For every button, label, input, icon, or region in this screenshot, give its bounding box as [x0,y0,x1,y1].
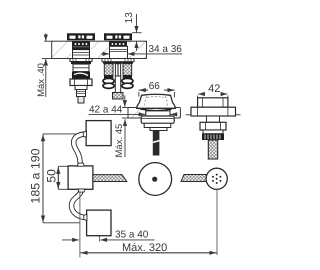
handle [104,33,132,40]
wire: right hole white [109,42,129,58]
svg-text:35 a 40: 35 a 40 [115,230,149,241]
supply tail [78,97,84,104]
aerator ring [203,130,223,134]
dim Max40 arrows [42,33,52,97]
handle [67,33,95,40]
top valve square (plan) [86,121,111,146]
svg-text:50: 50 [45,169,59,183]
body in counter [110,46,128,58]
pipe fitting center square top [77,163,84,166]
axis line bottom valve [98,236,100,242]
svg-text:Máx .40: Máx .40 [36,63,47,97]
aerator flange [191,107,236,116]
outlet arm hatched (side) [181,175,207,182]
bottom valve square (plan) [87,210,111,236]
spout washer [144,123,171,127]
nut bands [104,75,113,78]
spout center dot [152,177,157,182]
counter slab (top section view) [52,41,147,58]
dim 185a190 [43,134,86,223]
right valve body section [102,33,134,99]
dim 50 [58,166,68,189]
outlet circle with holes [206,168,227,189]
dim 13 lines [132,14,142,51]
pipe fitting at top valve [83,131,86,137]
center tube upper [115,64,120,76]
svg-text:42 a 44: 42 a 44 [89,105,123,116]
bonnet [109,41,127,46]
axis line spout [79,190,81,258]
spout threaded stem [153,131,160,156]
middle counter strip left segment [128,108,146,119]
hose ball right [122,78,133,83]
spout dome [137,94,176,111]
svg-text:34 a 36: 34 a 36 [148,44,182,55]
bonnet [72,41,90,46]
dim Max45 arrows [122,96,128,158]
pipe fitting at bottom valve [84,214,87,220]
axis line outlet [216,190,218,256]
knurled nut [202,134,224,140]
svg-text:Máx. 45: Máx. 45 [114,124,125,158]
counter tick left [186,114,192,116]
center spout square (plan) [68,166,93,189]
svg-text:Máx. 320: Máx. 320 [122,242,167,254]
center tube [115,76,120,93]
valve washer dark blob [72,72,90,79]
left threaded column [104,64,113,76]
spout plate [150,128,167,131]
hose ball left [103,78,114,83]
counter tick right [236,114,241,116]
svg-text:185 a 190: 185 a 190 [29,148,43,203]
pipe fitting center square bottom [78,189,85,192]
dim Max320 [80,252,217,254]
aerator hex nut [200,122,226,130]
pipe top (plan) [74,134,87,166]
dim 34a36 leader [101,53,182,55]
spout locknut [141,116,174,123]
aerator top block [198,98,228,107]
spout neck [146,111,170,116]
small nut [75,86,87,90]
body in counter [73,46,90,58]
bottom hatched block [113,93,124,100]
svg-text:13: 13 [124,12,135,24]
spout dome circle (plan) [139,163,172,196]
middle counter strip right segment [170,108,180,119]
flange below counter [70,59,92,62]
svg-text:66: 66 [149,81,161,92]
svg-text:42: 42 [208,83,220,95]
threaded tail [208,140,217,159]
left valve body section [67,33,95,103]
lock nut [70,79,92,86]
aerator neck [207,116,220,122]
mid body [73,64,89,72]
dim 35a40 [62,239,155,241]
right threaded column [123,64,132,76]
wire: left hole white [71,42,91,58]
flange with knurl [102,59,134,62]
spout arm hatched (plan) [93,175,127,182]
pipe bottom (plan) [72,189,87,217]
threaded stem [77,90,86,97]
